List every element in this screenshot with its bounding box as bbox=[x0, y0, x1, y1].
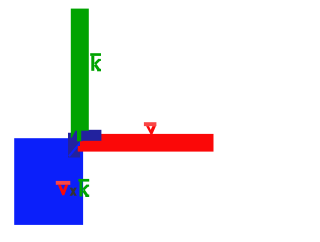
red arrowhead tip bbox=[78, 141, 83, 151]
label k bottom (green k with overbar) bbox=[78, 179, 89, 197]
navy blob B (junction) bbox=[68, 131, 80, 158]
red bar v bbox=[83, 134, 214, 152]
label x (cross product sign) bbox=[70, 188, 77, 196]
label v bottom (red v with overbar) bbox=[56, 181, 71, 185]
green wedge bbox=[71, 131, 76, 138]
green bar k bbox=[71, 9, 89, 131]
navy rect A (junction) bbox=[81, 130, 101, 141]
label v top (red v with overbar) bbox=[144, 122, 157, 126]
blue square v x k plane bbox=[14, 138, 83, 225]
gap line (square color showing through) bbox=[69, 142, 81, 156]
green stem bbox=[77, 131, 81, 142]
